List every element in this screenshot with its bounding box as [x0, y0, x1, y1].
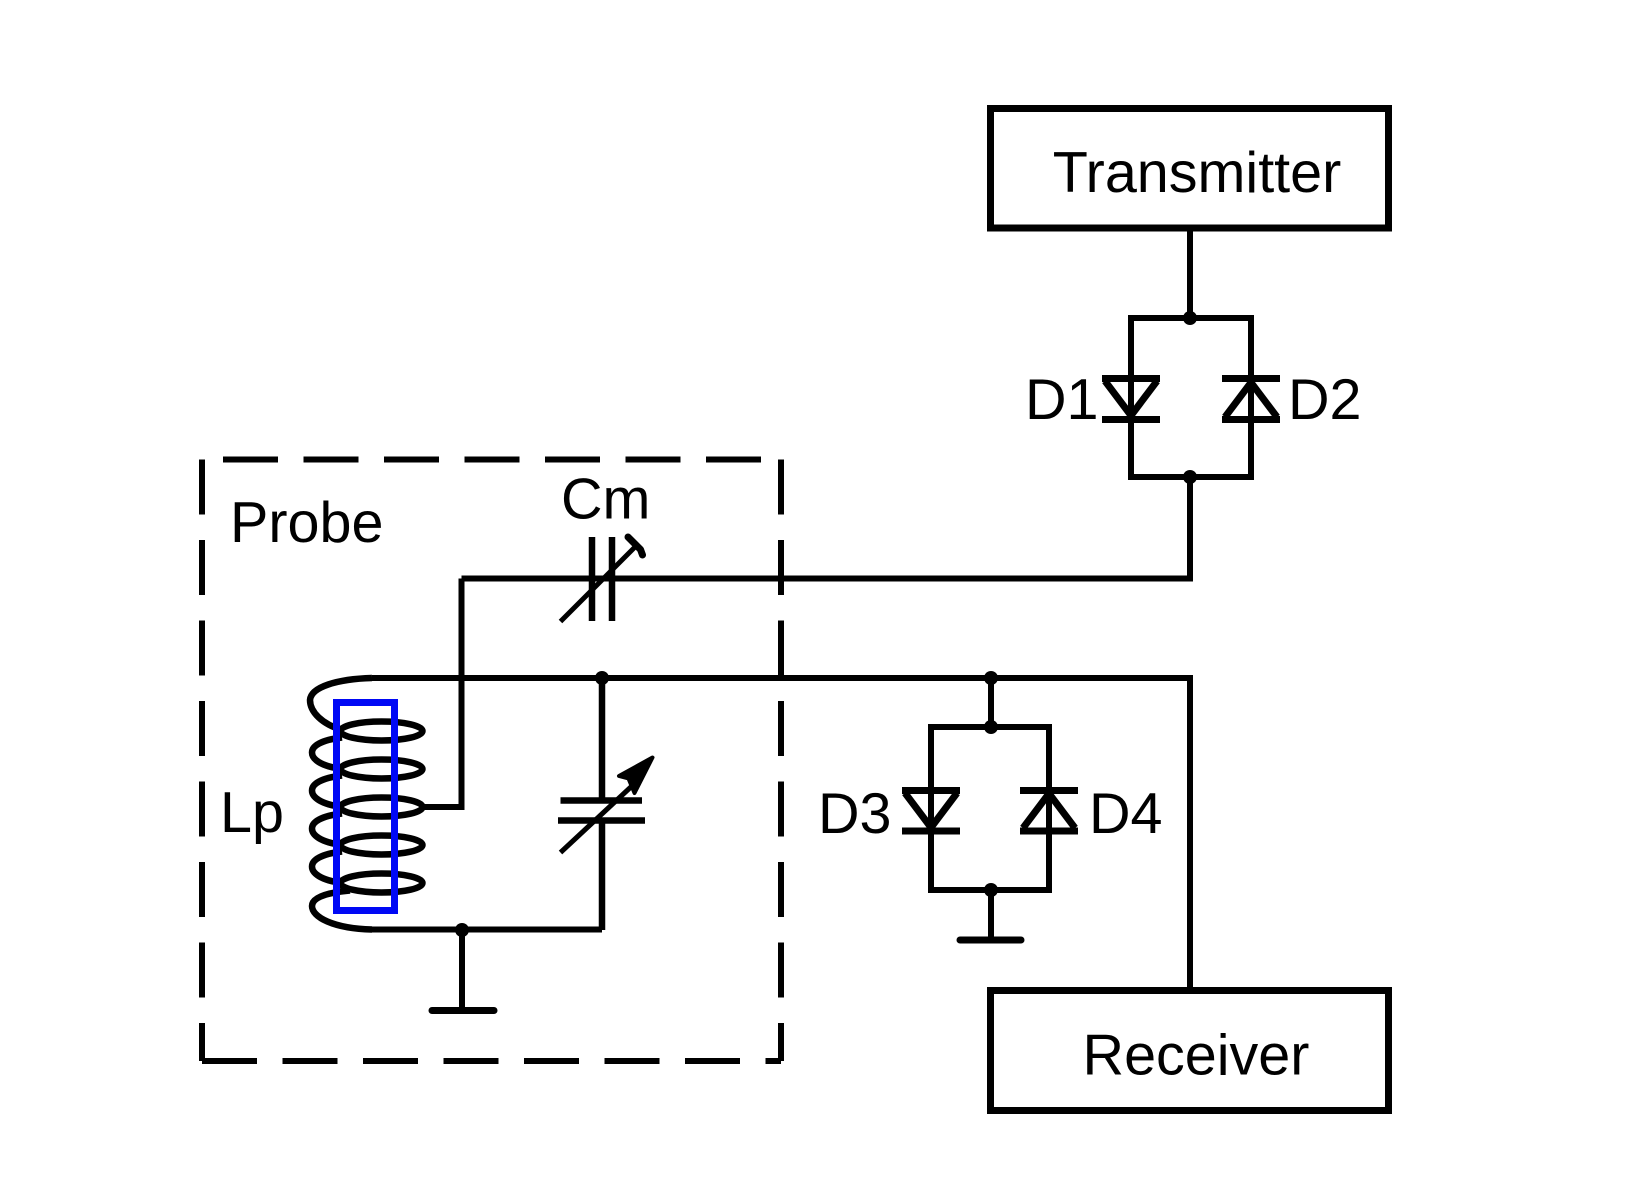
svg-text:Lp: Lp: [220, 781, 284, 845]
diode D2 (cathode up): [1222, 379, 1280, 420]
node: junction dot top of D1/D2: [1183, 311, 1197, 325]
svg-text:Receiver: Receiver: [1083, 1024, 1310, 1088]
node: junction dot tank top / D3 branch: [984, 671, 998, 685]
svg-text:Transmitter: Transmitter: [1053, 141, 1342, 205]
inductor Lp coil: [310, 678, 423, 930]
Probe dashed box: [202, 460, 781, 1062]
wire Cm branch down to coil tap: [420, 579, 462, 808]
diode D4 (cathode up): [1020, 791, 1078, 832]
D1/D2 parallel rectangle: [1131, 318, 1251, 477]
node: junction dot tank bottom / ground: [455, 923, 469, 937]
diode D1 (cathode down): [1102, 379, 1160, 420]
wire D1/D2 bottom to Cm line: [462, 477, 1191, 579]
wire tank top: [372, 678, 1190, 990]
svg-text:D3: D3: [818, 782, 892, 846]
wire tank bottom: [367, 927, 602, 933]
svg-text:D1: D1: [1025, 368, 1099, 432]
diode D3 (cathode down): [902, 791, 960, 832]
node: junction dot top of D3/D4: [984, 720, 998, 734]
svg-text:Cm: Cm: [561, 468, 650, 532]
svg-text:Probe: Probe: [230, 491, 383, 555]
ground (D3/D4): [960, 890, 1021, 940]
wire Transmitter to D1/D2 top: [1187, 228, 1193, 318]
node: junction dot bottom of D3/D4: [984, 883, 998, 897]
blue core rectangle of Lp: [337, 703, 395, 911]
capacitor Ct (variable tuning capacitor): [558, 678, 653, 930]
Receiver box: [991, 991, 1389, 1111]
Transmitter box: [991, 109, 1389, 229]
D3/D4 parallel rectangle: [931, 727, 1049, 890]
capacitor Cm (variable, on horizontal wire): [561, 537, 643, 622]
ground (probe): [432, 930, 494, 1011]
node: junction dot tank top / tuning cap: [595, 671, 609, 685]
svg-text:D2: D2: [1288, 368, 1362, 432]
node: junction dot bottom of D1/D2: [1183, 470, 1197, 484]
svg-text:D4: D4: [1089, 782, 1163, 846]
wire D3/D4 branch from tank top: [988, 678, 994, 727]
